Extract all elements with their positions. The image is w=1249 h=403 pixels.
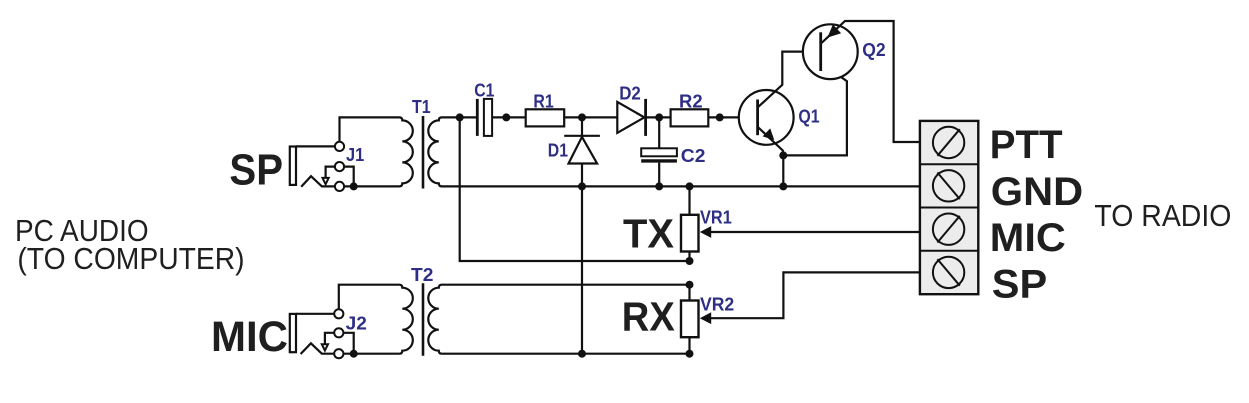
svg-text:D1: D1 <box>548 139 568 160</box>
svg-text:R2: R2 <box>679 91 703 112</box>
svg-text:Q1: Q1 <box>798 106 819 127</box>
svg-text:T1: T1 <box>412 96 431 117</box>
svg-text:MIC: MIC <box>990 216 1066 260</box>
svg-text:SP: SP <box>992 263 1047 307</box>
svg-text:C1: C1 <box>474 79 494 100</box>
svg-text:SP: SP <box>229 146 283 195</box>
svg-text:RX: RX <box>622 294 675 340</box>
svg-text:VR2: VR2 <box>700 293 734 314</box>
svg-text:Q2: Q2 <box>862 39 885 60</box>
svg-text:J2: J2 <box>346 313 367 334</box>
svg-text:D2: D2 <box>619 83 641 104</box>
svg-text:R1: R1 <box>533 90 553 111</box>
svg-text:PTT: PTT <box>990 123 1063 167</box>
svg-text:J1: J1 <box>346 144 364 165</box>
svg-text:TO RADIO: TO RADIO <box>1094 199 1231 233</box>
svg-text:T2: T2 <box>411 264 433 285</box>
svg-text:TX: TX <box>623 210 674 256</box>
svg-text:GND: GND <box>991 170 1083 214</box>
svg-text:C2: C2 <box>681 145 706 166</box>
svg-text:VR1: VR1 <box>700 206 732 227</box>
svg-text:(TO COMPUTER): (TO COMPUTER) <box>17 242 244 276</box>
svg-text:MIC: MIC <box>211 313 288 361</box>
